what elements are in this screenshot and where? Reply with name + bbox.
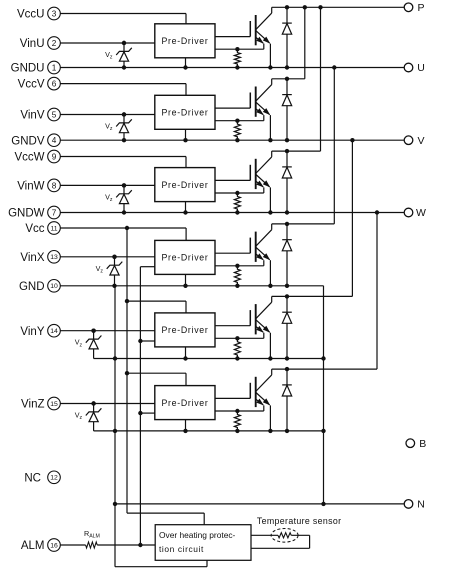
freewheel diode X bbox=[282, 222, 292, 288]
svg-text:Vcc: Vcc bbox=[25, 223, 44, 235]
pre-driver X bbox=[155, 240, 215, 274]
wire VccW to pre-driver W bbox=[60, 157, 186, 168]
wire GNDU / U emitter rail bbox=[60, 65, 404, 69]
IGBT Z bbox=[250, 369, 272, 433]
wire W bus to Z collector bbox=[376, 213, 378, 370]
wire low-side emitter common down to N bbox=[321, 286, 325, 506]
pre-driver W bbox=[155, 168, 215, 202]
zener diode Vz W bbox=[105, 183, 132, 212]
svg-text:VinY: VinY bbox=[20, 326, 44, 338]
svg-text:VccW: VccW bbox=[14, 152, 44, 164]
wire GND down to N and protection return bbox=[113, 286, 117, 567]
wire sense lead Z bbox=[215, 405, 264, 413]
wire Vcc tap to pre-driver Z bbox=[127, 373, 186, 385]
svg-text:V: V bbox=[417, 135, 424, 147]
gate resistor Z bbox=[234, 411, 240, 433]
wire gate lead W bbox=[215, 179, 250, 181]
svg-text:B: B bbox=[419, 438, 426, 450]
svg-text:VinU: VinU bbox=[20, 38, 45, 50]
wire gate lead X bbox=[215, 252, 250, 254]
IGBT U bbox=[250, 7, 272, 69]
zener diode Vz U bbox=[105, 41, 132, 68]
terminal VccW pin 9 bbox=[14, 150, 60, 163]
wire GNDV / V emitter rail bbox=[60, 138, 404, 142]
wire sense lead Y bbox=[215, 333, 264, 341]
wire GNDW / W emitter rail bbox=[60, 210, 404, 214]
node P rail bbox=[272, 5, 405, 9]
wire Vcc tap to pre-driver Y bbox=[127, 301, 186, 313]
over heating protection circuit box bbox=[155, 525, 251, 561]
zener diode Vz Z bbox=[75, 401, 102, 431]
pre-driver Y bbox=[155, 313, 215, 347]
wire VinX to pre-driver X bbox=[60, 255, 155, 259]
svg-text:14: 14 bbox=[50, 328, 58, 335]
svg-text:10: 10 bbox=[50, 283, 58, 290]
svg-text:GND: GND bbox=[19, 281, 45, 293]
svg-text:VccV: VccV bbox=[18, 79, 45, 91]
terminal GND pin 10 bbox=[19, 280, 60, 293]
gate resistor U bbox=[234, 49, 240, 70]
wire Vcc to pre-driver X bbox=[60, 226, 186, 241]
gate resistor X bbox=[234, 266, 240, 288]
freewheel diode Z bbox=[282, 367, 292, 433]
terminal VinW pin 8 bbox=[17, 179, 60, 192]
pre-driver Z bbox=[155, 386, 215, 420]
svg-text:VccU: VccU bbox=[17, 9, 44, 21]
freewheel diode W bbox=[282, 149, 292, 215]
terminal W bbox=[404, 207, 426, 219]
svg-text:GNDW: GNDW bbox=[8, 208, 45, 220]
zener diode Vz X bbox=[96, 255, 123, 286]
svg-text:VinZ: VinZ bbox=[21, 399, 44, 411]
svg-text:8: 8 bbox=[52, 181, 57, 190]
IGBT X bbox=[250, 224, 272, 288]
zener diode Vz Y bbox=[75, 329, 102, 359]
terminal Vcc pin 11 bbox=[25, 222, 60, 235]
wire Vcc distribution vertical bbox=[125, 228, 204, 525]
wire sense lead W bbox=[215, 187, 264, 195]
svg-text:2: 2 bbox=[52, 39, 57, 48]
wire VinZ to pre-driver Z bbox=[60, 401, 155, 405]
svg-text:Pre-Driver: Pre-Driver bbox=[161, 36, 208, 46]
wire protection box bottom return to N bbox=[115, 560, 207, 566]
terminal VinV pin 5 bbox=[20, 108, 60, 121]
svg-text:Pre-Driver: Pre-Driver bbox=[161, 180, 208, 190]
svg-text:3: 3 bbox=[52, 9, 57, 18]
svg-text:Pre-Driver: Pre-Driver bbox=[161, 108, 208, 118]
svg-text:NC: NC bbox=[24, 473, 41, 485]
wire sense lead X bbox=[215, 260, 264, 268]
terminal V bbox=[404, 135, 424, 147]
svg-text:6: 6 bbox=[52, 80, 57, 89]
wire VccV to pre-driver V bbox=[60, 84, 186, 96]
terminal VinY pin 14 bbox=[20, 324, 60, 337]
wire V bus to Y collector bbox=[351, 140, 353, 296]
svg-text:13: 13 bbox=[50, 254, 58, 261]
terminal N bbox=[404, 499, 425, 511]
wire pre-driver X bottom to emitter rail bbox=[183, 274, 187, 288]
terminal ALM pin 16 bbox=[21, 539, 60, 552]
terminal P bbox=[404, 2, 424, 14]
wire pre-driver W bottom to emitter rail bbox=[183, 202, 187, 215]
svg-text:Pre-Driver: Pre-Driver bbox=[161, 253, 208, 263]
node N line bbox=[115, 503, 404, 505]
wire VinW to pre-driver W bbox=[60, 183, 155, 187]
wire fault to pre-driver X bbox=[140, 266, 154, 268]
gate resistor W bbox=[234, 193, 240, 215]
svg-text:Over heating protec-: Over heating protec- bbox=[159, 530, 236, 540]
wire gate lead Y bbox=[215, 325, 250, 327]
gate resistor V bbox=[234, 121, 240, 143]
svg-text:7: 7 bbox=[52, 208, 57, 217]
wire P bus to V collector bbox=[304, 7, 306, 79]
wire fault to pre-driver Y bbox=[140, 340, 154, 342]
wire gate lead Z bbox=[215, 397, 250, 399]
freewheel diode U bbox=[282, 5, 292, 70]
wire VccU to pre-driver U bbox=[60, 14, 186, 24]
temperature sensor bbox=[251, 516, 341, 548]
wire VinV to pre-driver V bbox=[60, 112, 155, 116]
terminal VinZ pin 15 bbox=[21, 397, 60, 410]
terminal U bbox=[404, 62, 425, 74]
wire sense lead U bbox=[215, 44, 264, 52]
gate resistor Y bbox=[234, 338, 240, 360]
wire GND / X emitter rail bbox=[60, 284, 323, 288]
wire VinU to pre-driver U bbox=[60, 41, 155, 45]
wire Z emitter rail bbox=[94, 429, 326, 433]
terminal GNDV pin 4 bbox=[11, 134, 60, 147]
wire Z collector rail bbox=[272, 368, 377, 370]
terminal GNDU pin 1 bbox=[11, 61, 61, 74]
wire U bus to X collector bbox=[333, 68, 335, 224]
terminal VccU pin 3 bbox=[17, 7, 60, 20]
pre-driver U bbox=[155, 24, 215, 58]
terminal NC pin 12 bbox=[24, 471, 60, 485]
wire X collector rail bbox=[272, 223, 335, 225]
wire sense lead V bbox=[215, 115, 264, 123]
svg-text:15: 15 bbox=[50, 401, 58, 408]
terminal B bbox=[406, 438, 426, 450]
terminal GNDW pin 7 bbox=[8, 206, 60, 219]
svg-text:9: 9 bbox=[52, 152, 57, 161]
wire pre-driver U bottom to emitter rail bbox=[183, 58, 187, 70]
wire W collector rail bbox=[272, 150, 321, 152]
terminal VinX pin 13 bbox=[20, 250, 60, 263]
wire gate lead U bbox=[215, 36, 250, 38]
svg-text:VinV: VinV bbox=[20, 110, 44, 122]
resistor RALM bbox=[60, 529, 155, 548]
wire V collector rail bbox=[272, 78, 305, 80]
wire gate lead V bbox=[215, 107, 250, 109]
svg-text:12: 12 bbox=[50, 475, 58, 482]
svg-text:4: 4 bbox=[52, 136, 57, 145]
wire fault to pre-driver Z bbox=[140, 412, 154, 414]
pre-driver V bbox=[155, 95, 215, 129]
svg-text:1: 1 bbox=[52, 63, 57, 72]
zener diode Vz V bbox=[105, 112, 132, 140]
wire pre-driver Z bottom to emitter rail bbox=[183, 420, 187, 433]
svg-text:P: P bbox=[417, 2, 424, 14]
wire P bus to W collector bbox=[320, 7, 322, 151]
svg-text:Pre-Driver: Pre-Driver bbox=[161, 325, 208, 335]
wire pre-driver V bottom to emitter rail bbox=[183, 129, 187, 142]
svg-text:U: U bbox=[417, 62, 425, 74]
svg-text:W: W bbox=[416, 207, 426, 219]
freewheel diode Y bbox=[282, 294, 292, 361]
svg-text:tion circuit: tion circuit bbox=[159, 544, 204, 554]
svg-text:Temperature sensor: Temperature sensor bbox=[257, 516, 342, 526]
IGBT W bbox=[250, 151, 272, 215]
svg-text:ALM: ALM bbox=[21, 540, 45, 552]
svg-text:VinX: VinX bbox=[20, 252, 44, 264]
svg-text:11: 11 bbox=[50, 225, 57, 232]
wire VinY to pre-driver Y bbox=[60, 329, 155, 333]
svg-text:Pre-Driver: Pre-Driver bbox=[161, 398, 208, 408]
svg-text:VinW: VinW bbox=[17, 181, 44, 193]
svg-text:GNDU: GNDU bbox=[11, 63, 45, 75]
wire pre-driver Y bottom to emitter rail bbox=[183, 347, 187, 361]
IGBT Y bbox=[250, 296, 272, 360]
wire Y collector rail bbox=[272, 295, 353, 297]
wire Y emitter rail bbox=[94, 356, 326, 360]
svg-text:5: 5 bbox=[52, 110, 57, 119]
svg-text:16: 16 bbox=[50, 542, 58, 549]
IGBT V bbox=[250, 79, 272, 143]
freewheel diode V bbox=[282, 77, 292, 143]
svg-text:GNDV: GNDV bbox=[11, 135, 45, 147]
terminal VccV pin 6 bbox=[18, 77, 61, 90]
svg-text:N: N bbox=[417, 499, 425, 511]
terminal VinU pin 2 bbox=[20, 37, 61, 50]
wire fault line vertical bbox=[138, 267, 142, 548]
